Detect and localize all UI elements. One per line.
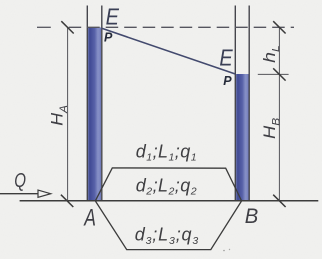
label h_L (rotated) bbox=[259, 45, 282, 63]
label A (node on pipe axis) bbox=[83, 205, 96, 231]
flow arrow line Q bbox=[0, 193, 39, 195]
label Q bbox=[14, 169, 26, 192]
tick middle (water level B) bbox=[273, 68, 285, 80]
tick bottom (pipe axis) bbox=[273, 195, 285, 207]
label H_B (rotated) bbox=[259, 117, 282, 139]
label B (node on pipe axis) bbox=[245, 205, 259, 229]
svg-text:B: B bbox=[245, 205, 259, 229]
dashed datum line continuation bbox=[69, 26, 294, 28]
label H_A (rotated) bbox=[47, 105, 70, 126]
piezometer tube B: blue water column bbox=[236, 74, 248, 201]
pipe section d2 outline (trapezoid between A and B) bbox=[95, 168, 241, 201]
svg-text:d2;L2;q2: d2;L2;q2 bbox=[136, 175, 197, 197]
svg-text:P: P bbox=[104, 31, 113, 45]
piezometer tube A: right wall bbox=[101, 6, 103, 201]
dashed datum line (energy horizon): first dash bbox=[37, 26, 51, 28]
svg-text:d3;L3;q3: d3;L3;q3 bbox=[135, 225, 199, 247]
right dimension line (h_L over H_B) bbox=[278, 27, 280, 201]
dimension line H_A bbox=[67, 27, 69, 200]
scan speck 2 bbox=[229, 249, 230, 250]
tick at top of H_A bbox=[61, 21, 73, 33]
svg-text:d1;L1;q1: d1;L1;q1 bbox=[136, 141, 197, 163]
svg-text:E: E bbox=[219, 44, 233, 71]
tick at bottom of H_A bbox=[61, 195, 73, 207]
label E at tube B bbox=[219, 44, 233, 71]
svg-text:A: A bbox=[83, 205, 96, 231]
svg-text:E: E bbox=[106, 3, 120, 30]
scan speck 1 bbox=[223, 250, 225, 252]
tick top (datum) bbox=[273, 21, 285, 33]
extension line at tube B water level bbox=[258, 73, 289, 75]
piezometer tube B: right wall bbox=[248, 6, 250, 201]
piezometer tube A: blue water column bbox=[88, 27, 101, 200]
piezometric line from tube A level to tube B level bbox=[102, 28, 236, 74]
svg-text:Q: Q bbox=[14, 169, 26, 192]
label E at tube A bbox=[106, 3, 120, 30]
piezometer tube B: left wall bbox=[234, 6, 236, 201]
svg-text:P: P bbox=[223, 74, 232, 88]
open arrowhead bbox=[38, 190, 51, 197]
pipe section d3 outline (trapezoid below axis) bbox=[95, 201, 241, 250]
pipe axis line through A and B bbox=[20, 200, 319, 202]
piezometer tube A: left wall bbox=[86, 6, 88, 201]
